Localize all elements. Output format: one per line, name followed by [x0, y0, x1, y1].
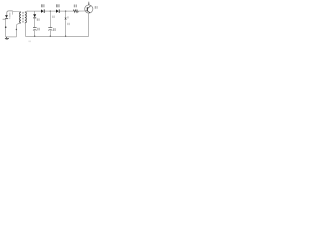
wire Q1 emitter down — [88, 13, 90, 36]
plug inner prong — [9, 13, 11, 18]
wire R1 to Q1 base — [78, 10, 84, 12]
label right of zener — [67, 16, 68, 18]
wire secondary top lead — [25, 11, 28, 12]
node rail x34.7 — [34, 36, 35, 37]
wire bottom rail — [25, 35, 88, 37]
node rail x50.3 — [50, 36, 51, 37]
ground symbol — [5, 38, 9, 39]
wire C2 branch drop — [49, 11, 51, 27]
label D2 — [56, 4, 58, 7]
wire primary bottom lead — [16, 23, 21, 37]
ground stub — [6, 37, 8, 38]
node top rail x65.6 — [65, 10, 66, 11]
wire C1 to rail — [34, 30, 36, 36]
transformer T1 primary winding — [20, 12, 21, 23]
value label right of C1 — [37, 28, 38, 31]
node on primary return — [16, 29, 17, 30]
faint caption smudge — [28, 41, 31, 43]
diode D2 — [56, 9, 60, 13]
wire secondary bottom lead — [24, 23, 27, 36]
wire plug left prong down — [5, 19, 7, 37]
resistor R1 — [73, 10, 78, 13]
label D1 — [41, 4, 43, 7]
diode D1 — [41, 9, 45, 13]
zener diode ZD1 — [65, 18, 67, 20]
wire C2 to rail — [49, 30, 51, 36]
wire rectifier branch drop — [34, 11, 36, 14]
transistor Q1 — [85, 5, 93, 13]
label below right of zener — [67, 23, 68, 25]
capacitor C1 — [33, 28, 37, 31]
wire D1 to junction — [45, 10, 57, 12]
value label right of C2 — [53, 28, 54, 31]
node rail x65.6 — [65, 36, 66, 37]
diode D3 (vertical) — [33, 14, 36, 18]
transformer core — [23, 12, 24, 23]
small mark right of blade — [9, 17, 11, 20]
wire zener branch drop — [65, 11, 67, 17]
label R1 — [74, 5, 76, 8]
wire left return rail — [6, 36, 17, 38]
node on left prong — [5, 26, 7, 28]
wire zener to rail — [65, 20, 67, 36]
wire D3 to C1 — [34, 18, 36, 27]
plug contact blade (dark) — [5, 15, 8, 19]
wire top rail left — [27, 10, 41, 12]
label Q1 — [95, 6, 96, 9]
capacitor C2 — [48, 28, 52, 31]
small label mid C2 branch — [52, 16, 53, 18]
wire D2 to zener junction — [60, 10, 74, 12]
wire plug top to transformer — [13, 10, 21, 13]
Q1 collector stub — [88, 2, 90, 5]
AC plug P1 body — [7, 11, 13, 15]
label 230V (left of plug) — [3, 18, 6, 21]
node top rail x50.3 — [50, 10, 51, 11]
value label right of D3 — [37, 18, 38, 20]
transformer T1 secondary winding — [25, 12, 26, 23]
